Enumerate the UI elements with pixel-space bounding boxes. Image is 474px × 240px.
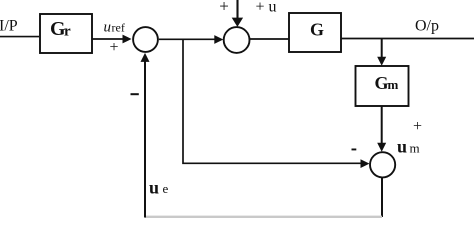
svg-text:r: r xyxy=(64,24,71,40)
svg-text:+: + xyxy=(109,39,118,56)
wire: bottom feedback run (light) xyxy=(145,216,382,218)
svg-text:u: u xyxy=(104,20,112,36)
wire: branch from S1-S2 line down to S3 level xyxy=(183,39,361,163)
block Gr xyxy=(40,14,92,53)
svg-text:ref: ref xyxy=(112,21,125,35)
block G xyxy=(289,13,341,52)
arrowhead into S3 (top) xyxy=(377,143,386,152)
summing junction S3 xyxy=(370,152,395,177)
wire: S1 to summing junction S2 xyxy=(159,38,217,40)
wire: feedback up into S1 xyxy=(144,60,146,218)
svg-text:I/P: I/P xyxy=(0,18,18,35)
wire: G output to right edge (O/p) xyxy=(341,38,474,40)
wire: Gm output down to summing junction S3 xyxy=(381,106,383,144)
svg-text:e: e xyxy=(163,181,169,196)
svg-text:G: G xyxy=(310,20,324,40)
wire: S2 to G xyxy=(250,38,290,40)
arrowhead into S2 (top) xyxy=(232,18,243,27)
svg-text:G: G xyxy=(375,73,389,93)
svg-text:+: + xyxy=(413,118,422,135)
wire: S3 down to bottom feedback run xyxy=(381,178,383,218)
arrowhead into Gm (top) xyxy=(377,57,386,66)
arrowhead into S2 (left) xyxy=(214,35,223,44)
arrowhead into S1 (left) xyxy=(123,35,132,44)
wire: branch from output down into Gm xyxy=(381,39,383,59)
svg-text:u: u xyxy=(397,137,407,157)
svg-text:m: m xyxy=(410,141,420,156)
arrowhead into S3 (left) xyxy=(361,159,370,168)
svg-text:u: u xyxy=(149,178,159,198)
summing junction S2 xyxy=(224,27,250,53)
summing junction S1 xyxy=(133,27,158,52)
label - (S3 branch sign) xyxy=(352,149,357,151)
svg-text:+ u: + u xyxy=(256,0,277,16)
wire: input into Gr xyxy=(0,36,39,38)
block Gm xyxy=(356,66,409,106)
svg-text:m: m xyxy=(388,77,399,92)
svg-text:+: + xyxy=(219,0,229,16)
arrowhead into S1 (bottom) xyxy=(141,53,150,62)
wire: disturbance u input (vertical, from top edge) xyxy=(236,0,238,19)
svg-text:O/p: O/p xyxy=(415,18,439,35)
label - (S1 feedback sign) xyxy=(131,93,139,95)
wire: Gr output to summing junction S1 xyxy=(92,38,125,40)
